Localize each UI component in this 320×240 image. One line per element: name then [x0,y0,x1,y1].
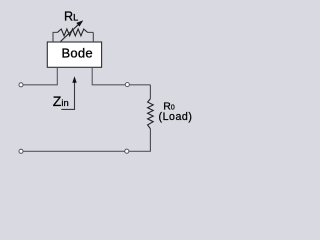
svg-text:RL: RL [64,10,78,24]
wire top-right stub [88,31,94,33]
wire right vertical upper [149,85,151,99]
node output top [125,83,129,87]
terminal input top [19,83,23,87]
block U1 Bode [47,42,101,67]
arrow Zin [61,76,76,109]
potentiometer arrow RL [61,21,83,42]
resistor R0 zigzag [148,99,154,129]
resistor RL zigzag [58,29,88,36]
wire right vertical lower [149,129,151,152]
wire right leg of box [92,67,150,85]
wire bottom [23,150,151,152]
wire top-left stub [53,31,58,33]
svg-text:Bode: Bode [62,46,93,61]
terminal input bottom [19,149,23,153]
node output bottom [125,149,129,153]
wire left leg of box [23,67,57,85]
wire top-left riser [52,32,54,42]
wire top-right riser [92,32,94,42]
svg-text:(Load): (Load) [159,111,193,123]
